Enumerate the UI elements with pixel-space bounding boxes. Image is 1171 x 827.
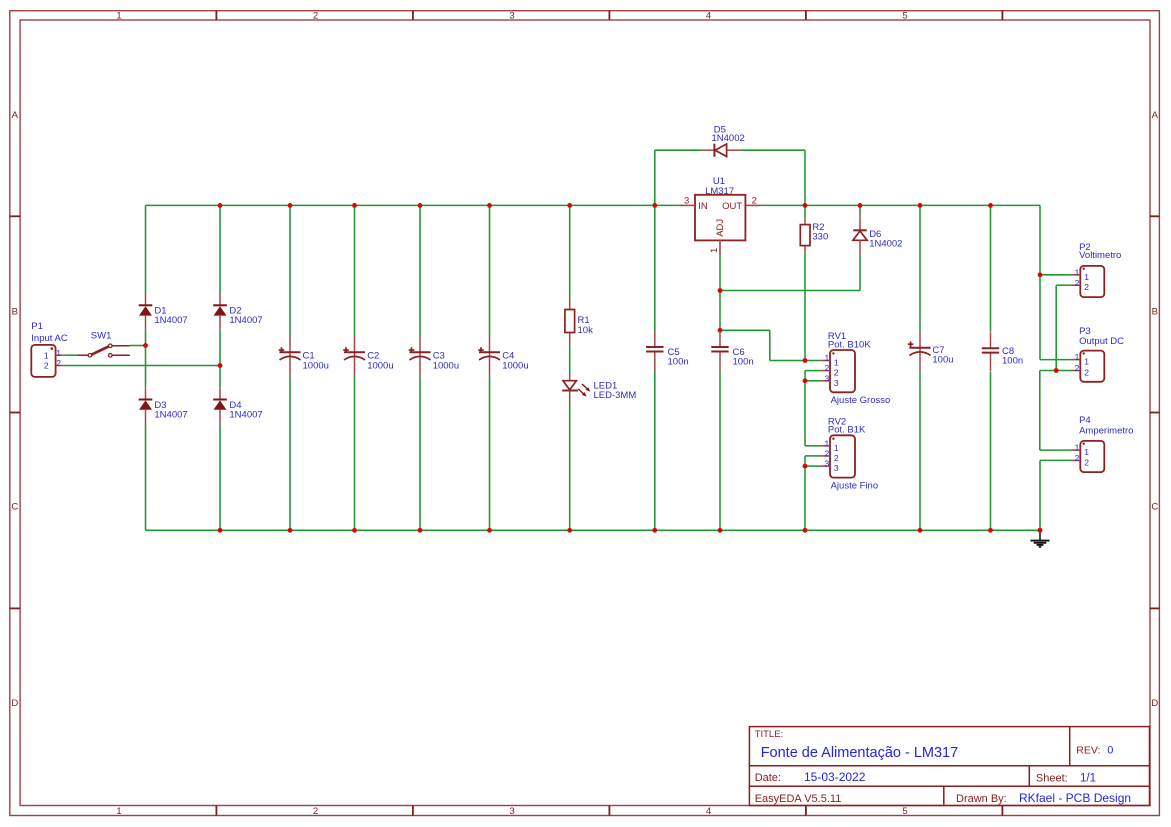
junction node P1/D2 <box>218 363 223 368</box>
potentiometer RV2 Pot. B1K <box>821 416 866 477</box>
wire column R2 <box>804 205 806 360</box>
svg-text:1: 1 <box>1084 357 1089 367</box>
svg-text:1N4007: 1N4007 <box>154 409 187 420</box>
wire P2 pin2 to P3 pin2 <box>1056 285 1071 370</box>
wire column C2 <box>354 205 356 530</box>
wire P2 pin1 <box>1040 274 1071 276</box>
svg-text:2: 2 <box>1084 282 1089 292</box>
resistor R2 330 <box>800 219 828 253</box>
svg-text:1/1: 1/1 <box>1080 773 1096 785</box>
svg-text:2: 2 <box>1075 278 1080 288</box>
junction dots bottom bus <box>218 528 1043 533</box>
svg-text:REV:: REV: <box>1076 745 1100 757</box>
svg-text:100n: 100n <box>1002 356 1023 367</box>
diode D1 1N4007 <box>139 294 188 330</box>
wire U1 ADJ to node <box>719 255 721 291</box>
svg-text:100n: 100n <box>733 357 754 368</box>
svg-text:2: 2 <box>1075 363 1080 373</box>
op-amp U1 LM317 <box>679 176 760 255</box>
net label Ajuste Grosso <box>831 395 891 406</box>
svg-text:Fonte de Alimentação - LM317: Fonte de Alimentação - LM317 <box>761 745 958 761</box>
svg-text:C: C <box>11 502 18 513</box>
title block <box>749 727 1149 806</box>
wire column C7 <box>919 205 921 530</box>
junction node RV2 pin3 <box>803 464 808 469</box>
svg-text:Voltimetro: Voltimetro <box>1079 250 1121 261</box>
capacitor C7 100u <box>908 331 954 371</box>
svg-text:1: 1 <box>116 11 121 22</box>
capacitor C1 1000u <box>279 336 329 376</box>
connector P3 Output DC <box>1071 326 1124 382</box>
svg-text:3: 3 <box>824 459 829 469</box>
junction node ADJ <box>718 288 723 293</box>
svg-text:2: 2 <box>313 11 318 22</box>
wire column C4 <box>489 205 491 530</box>
svg-text:Ajuste Fino: Ajuste Fino <box>831 481 879 492</box>
svg-text:1N4002: 1N4002 <box>869 238 902 249</box>
capacitor C4 1000u <box>478 336 528 376</box>
svg-text:P1: P1 <box>31 321 43 332</box>
svg-text:1: 1 <box>1075 443 1080 453</box>
diode D5 1N4002 <box>701 125 745 157</box>
svg-text:OUT: OUT <box>722 201 742 212</box>
svg-text:0: 0 <box>1107 745 1113 757</box>
svg-text:5: 5 <box>902 11 907 22</box>
junction node RV1 pin3 <box>803 378 808 383</box>
svg-text:Pot. B10K: Pot. B10K <box>828 339 871 350</box>
wire P1 pin1 to SW1 <box>63 354 77 356</box>
svg-text:2: 2 <box>824 363 829 373</box>
wire column R1/LED1 <box>569 205 571 530</box>
svg-text:100n: 100n <box>668 357 689 368</box>
wire node to RV1 pin1 <box>720 330 821 360</box>
potentiometer RV1 Pot. B10K <box>821 331 872 392</box>
svg-text:D: D <box>11 698 18 709</box>
resistor R1 10k <box>565 298 593 346</box>
junction dots top bus <box>218 203 993 208</box>
svg-text:2: 2 <box>56 358 61 368</box>
wire RV2 down to ground bus <box>804 466 806 530</box>
capacitor C5 100n <box>646 331 689 371</box>
svg-text:1: 1 <box>824 353 829 363</box>
svg-text:1: 1 <box>834 358 839 368</box>
svg-text:Pot. B1K: Pot. B1K <box>828 425 866 436</box>
svg-text:1000u: 1000u <box>502 360 528 371</box>
svg-text:SW1: SW1 <box>91 331 112 342</box>
capacitor C2 1000u <box>343 336 393 376</box>
svg-text:3: 3 <box>824 373 829 383</box>
svg-text:4: 4 <box>706 11 711 22</box>
svg-text:P4: P4 <box>1079 415 1091 426</box>
net label Ajuste Fino <box>831 481 879 492</box>
svg-text:Drawn By:: Drawn By: <box>956 793 1007 805</box>
svg-text:1: 1 <box>56 348 61 358</box>
LED LED1 LED-3MM <box>562 375 636 404</box>
wire column D6 <box>859 205 861 290</box>
svg-text:LED-3MM: LED-3MM <box>594 390 637 401</box>
svg-text:3: 3 <box>509 11 514 22</box>
junction node P2 pin1 <box>1038 272 1043 277</box>
svg-text:1: 1 <box>834 443 839 453</box>
svg-text:1000u: 1000u <box>367 360 393 371</box>
svg-text:15-03-2022: 15-03-2022 <box>804 770 866 784</box>
wire left column D1/D3 <box>145 205 147 530</box>
svg-text:4: 4 <box>706 806 711 817</box>
svg-text:1N4007: 1N4007 <box>229 409 262 420</box>
svg-text:B: B <box>12 307 18 318</box>
svg-text:2: 2 <box>1084 368 1089 378</box>
wire column C5 <box>654 205 656 530</box>
svg-text:5: 5 <box>902 806 907 817</box>
svg-text:TITLE:: TITLE: <box>755 729 784 740</box>
svg-text:1000u: 1000u <box>433 360 459 371</box>
wire top bus left of U1 <box>146 204 680 206</box>
wire RV1 pin2 to pin3 jog <box>805 371 821 381</box>
svg-text:1: 1 <box>709 248 720 253</box>
svg-text:B: B <box>1152 307 1158 318</box>
diode D3 1N4007 <box>139 388 188 424</box>
switch SW1 <box>78 331 130 358</box>
svg-text:A: A <box>1152 110 1159 121</box>
svg-text:2: 2 <box>313 806 318 817</box>
junction node SW1/D1 <box>143 343 148 348</box>
wire top bus right of U1 <box>760 204 1040 206</box>
wire P4 pin2 to ground bus <box>1040 460 1071 530</box>
svg-text:LM317: LM317 <box>705 186 734 197</box>
svg-text:A: A <box>12 110 19 121</box>
junction node RV1 pin1 <box>803 358 808 363</box>
diode D6 1N4002 <box>853 216 903 255</box>
wire column D2/D4 <box>219 205 221 530</box>
wire P3 pin1 <box>1040 359 1071 361</box>
wire RV2 pin2 to pin3 jog <box>805 456 821 466</box>
wire column C6 <box>719 291 721 531</box>
wire SW1 to bridge node <box>130 345 146 347</box>
svg-text:IN: IN <box>698 201 708 212</box>
svg-text:C: C <box>1151 502 1158 513</box>
svg-text:Amperimetro: Amperimetro <box>1079 426 1133 437</box>
capacitor C8 100n <box>982 332 1023 371</box>
svg-text:1: 1 <box>44 350 49 360</box>
svg-text:1: 1 <box>1084 272 1089 282</box>
svg-text:2: 2 <box>824 448 829 458</box>
svg-text:1N4002: 1N4002 <box>712 133 745 144</box>
diode D4 1N4007 <box>213 388 262 424</box>
junction node C6/RV1 <box>718 328 723 333</box>
svg-text:3: 3 <box>684 196 689 207</box>
svg-text:Date:: Date: <box>755 772 781 784</box>
svg-text:1: 1 <box>1075 267 1080 277</box>
connector P1 Input AC <box>31 321 68 377</box>
svg-text:1000u: 1000u <box>303 360 329 371</box>
svg-text:2: 2 <box>834 453 839 463</box>
ground <box>1031 528 1050 547</box>
wire column C3 <box>419 205 421 530</box>
svg-text:2: 2 <box>44 361 49 371</box>
svg-text:3: 3 <box>834 463 839 473</box>
svg-text:1: 1 <box>1075 352 1080 362</box>
connector P4 Amperimetro <box>1071 415 1134 472</box>
wire P1 pin2 to bridge <box>63 365 220 367</box>
svg-text:1: 1 <box>116 806 121 817</box>
wire column C1 <box>289 205 291 530</box>
svg-text:1: 1 <box>1084 447 1089 457</box>
connector P2 Voltimetro <box>1071 242 1122 297</box>
capacitor C3 1000u <box>409 336 459 376</box>
wire ADJ horizontal to D6 <box>720 290 860 292</box>
svg-text:1: 1 <box>824 438 829 448</box>
svg-text:Input AC: Input AC <box>31 333 68 344</box>
wire column C8 <box>990 205 992 530</box>
diode D2 1N4007 <box>213 294 262 330</box>
svg-text:EasyEDA V5.5.11: EasyEDA V5.5.11 <box>755 793 842 805</box>
wire RV1 to RV2 pin1 <box>805 381 821 446</box>
svg-text:330: 330 <box>812 232 828 243</box>
svg-text:3: 3 <box>509 806 514 817</box>
wire P3 pin2 to P4 pin1 <box>1040 371 1071 451</box>
wire D5 bypass loop <box>655 150 805 205</box>
svg-text:D: D <box>1151 698 1158 709</box>
svg-text:1N4007: 1N4007 <box>154 315 187 326</box>
svg-text:100u: 100u <box>932 354 953 365</box>
svg-text:1N4007: 1N4007 <box>229 315 262 326</box>
wire right drop to P3 pin1 <box>1039 205 1041 359</box>
junction node P3 pin2 <box>1054 368 1059 373</box>
svg-text:2: 2 <box>1084 457 1089 467</box>
svg-text:RKfael - PCB Design: RKfael - PCB Design <box>1019 791 1131 805</box>
wire bottom ground bus <box>146 529 1041 531</box>
capacitor C6 100n <box>711 331 753 371</box>
svg-text:Ajuste Grosso: Ajuste Grosso <box>831 395 891 406</box>
svg-text:2: 2 <box>1075 453 1080 463</box>
svg-text:10k: 10k <box>578 325 594 336</box>
svg-text:Sheet:: Sheet: <box>1036 773 1068 785</box>
svg-text:Output DC: Output DC <box>1079 336 1124 347</box>
svg-text:3: 3 <box>834 378 839 388</box>
svg-text:2: 2 <box>752 196 757 207</box>
svg-text:2: 2 <box>834 368 839 378</box>
svg-text:ADJ: ADJ <box>715 219 726 237</box>
